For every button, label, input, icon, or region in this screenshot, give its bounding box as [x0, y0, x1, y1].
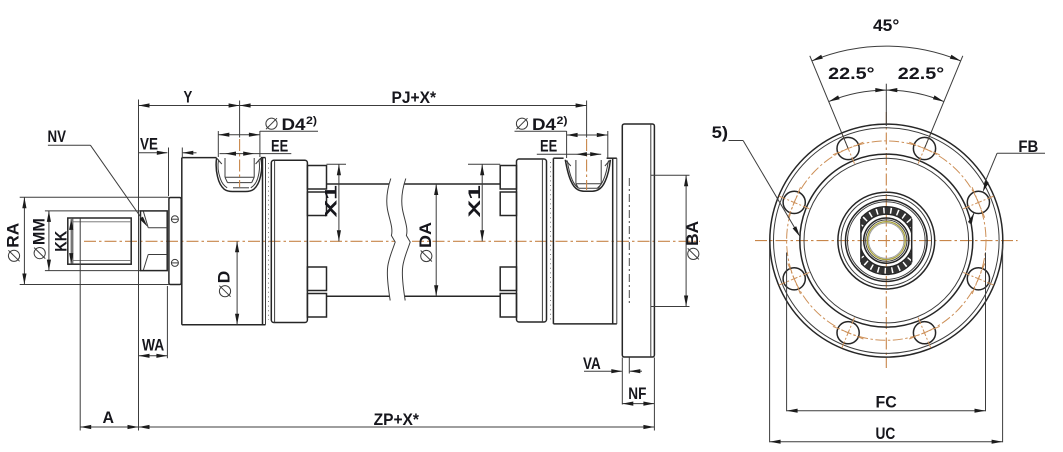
cylinder tube [327, 184, 501, 296]
dimension RA [4, 197, 169, 284]
flange bolts right head [500, 166, 516, 318]
svg-text:BA: BA [683, 221, 702, 246]
head block 2 (cap side) [553, 158, 616, 324]
rod wrench flats (NV) [141, 211, 168, 271]
radial line vertical [885, 84, 887, 126]
dimension X1 right [465, 164, 500, 241]
mounting bolt holes FB [783, 137, 989, 343]
extension line thread [79, 218, 81, 430]
svg-text:EE: EE [271, 136, 288, 155]
svg-text:WA: WA [142, 335, 164, 354]
svg-text:22.5°: 22.5° [828, 64, 875, 83]
tube break symbol [387, 179, 410, 301]
dimension UC [770, 244, 1003, 444]
front view vertical centerline [885, 112, 887, 368]
flange bolts left head [307, 166, 326, 318]
dimension WA [139, 286, 168, 358]
dimension A [80, 408, 138, 429]
dimension ZP+X* [139, 358, 655, 431]
dimension DA [416, 184, 438, 296]
front view horizontal centerline [755, 240, 1018, 242]
dimension D4 port 1 [218, 115, 318, 157]
guide ring 1 [271, 160, 307, 322]
svg-text:RA: RA [4, 223, 23, 248]
svg-text:MM: MM [29, 218, 48, 245]
radial line left 22.5 [810, 56, 848, 148]
svg-text:FC: FC [876, 393, 897, 412]
svg-text:VA: VA [583, 354, 601, 373]
gland screw lower [171, 259, 178, 266]
svg-text:D: D [215, 271, 234, 284]
dimension X1 left [322, 164, 346, 241]
svg-text:X1: X1 [465, 185, 484, 217]
svg-text:D4: D4 [282, 115, 307, 134]
svg-text:UC: UC [876, 424, 896, 443]
flange outer circle [770, 124, 1003, 357]
svg-text:D4: D4 [532, 115, 557, 134]
label NV [48, 127, 148, 227]
rod bore circles [864, 218, 909, 263]
svg-text:ZP+X*: ZP+X* [374, 410, 420, 429]
bolt circle (pitch) [787, 141, 986, 340]
dimension FC [787, 253, 986, 413]
dimension 22.5 deg right [886, 64, 944, 102]
seam line 2 [550, 162, 552, 320]
rod end thread band and wrench flats [853, 207, 921, 275]
rod diameter MM outline lines [45, 211, 141, 271]
dimension D [215, 241, 240, 324]
dimension EE port 1 [220, 136, 292, 155]
svg-text:2): 2) [557, 115, 568, 127]
dimension BA [651, 175, 702, 306]
svg-text:45°: 45° [873, 16, 899, 35]
piston rod threaded end (KK thread) [68, 218, 131, 264]
port boss 1 (service port) [216, 158, 262, 192]
port boss 2 (service port) [565, 160, 610, 191]
gland screw upper [171, 216, 178, 223]
main axis centerline [84, 240, 700, 242]
dimension EE port 2 [537, 136, 601, 156]
svg-text:NF: NF [628, 384, 646, 403]
svg-text:Y: Y [184, 88, 193, 107]
cylinder body circle [800, 154, 973, 327]
dimension 45 deg arc [812, 16, 961, 61]
svg-text:VE: VE [140, 135, 158, 154]
svg-text:22.5°: 22.5° [898, 64, 945, 83]
dimension PJ+X* [240, 88, 587, 108]
dimension VA [583, 354, 642, 374]
hub rings [838, 192, 935, 289]
seam line 1 [268, 163, 270, 320]
dimension 22.5 deg left [828, 64, 886, 102]
svg-text:DA: DA [416, 222, 435, 248]
dimension KK [51, 219, 73, 264]
gland plate [169, 198, 181, 285]
dimension Y [139, 88, 240, 108]
mounting flange [622, 124, 654, 357]
port 2 centerline [586, 101, 588, 191]
dimension FB leader [968, 137, 1045, 224]
guide ring 2 [517, 159, 547, 322]
svg-text:5): 5) [712, 123, 729, 142]
note 5) leader [712, 123, 800, 237]
svg-text:NV: NV [48, 127, 67, 146]
svg-text:PJ+X*: PJ+X* [392, 88, 437, 107]
head block 1 (rod side) [182, 158, 266, 325]
bolt hole centermarks [779, 133, 994, 348]
svg-text:X1: X1 [322, 185, 341, 217]
port 1 centerline [239, 101, 241, 188]
extension line at rod shoulder [138, 100, 140, 431]
dimension MM [29, 211, 51, 271]
dimension NF [622, 374, 654, 406]
svg-text:A: A [103, 408, 115, 427]
dimension VE [139, 135, 197, 197]
svg-text:EE: EE [540, 136, 557, 155]
dimension D4 port 2 [515, 115, 608, 158]
svg-text:2): 2) [306, 115, 317, 127]
radial line right 22.5 [925, 56, 963, 148]
svg-text:KK: KK [51, 230, 70, 252]
